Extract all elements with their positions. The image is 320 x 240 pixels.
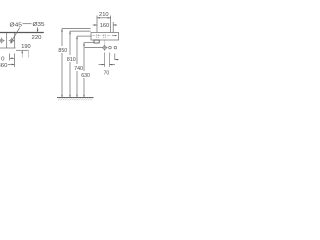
dimension 50 extension line <box>9 54 11 61</box>
svg-text:360: 360 <box>0 63 7 69</box>
elevation tap hole diamond <box>102 45 106 49</box>
height 630 extension line <box>84 42 94 44</box>
dimension 210 line <box>97 17 111 19</box>
dimension 50 arrowhead <box>10 58 13 60</box>
leader line to tap hole <box>10 28 19 44</box>
height 850 dim line lower <box>61 53 63 97</box>
svg-text:190: 190 <box>21 44 30 50</box>
dimension 360 extension line <box>14 54 16 68</box>
dimension 160 right arrow line <box>113 24 117 26</box>
height 810 floor arrowhead <box>69 95 70 98</box>
height 810 top arrowhead <box>69 31 71 34</box>
height 740 dim line upper <box>76 36 78 64</box>
height 850 dim line upper <box>61 29 63 46</box>
svg-text:810: 810 <box>67 57 76 63</box>
height 850 top arrowhead <box>61 29 63 32</box>
plan view: bowl back edge <box>0 47 16 49</box>
plan view: section line left <box>6 33 8 48</box>
height 740 extension line <box>77 35 92 37</box>
dimension 210 arrowhead right <box>108 17 111 19</box>
svg-text:Ø45: Ø45 <box>10 22 22 28</box>
dimension 70 arrowhead right <box>110 64 113 66</box>
height 630 top arrowhead <box>83 43 85 46</box>
elevation fixing hole left <box>109 46 112 49</box>
height 740 dim line lower <box>76 71 78 97</box>
plan view: section line right <box>14 33 16 48</box>
dimension 360 arrowhead <box>12 64 15 66</box>
plan tap hole symbol right <box>10 39 14 43</box>
elevation: hidden centre line <box>93 35 112 37</box>
tap hole leader line <box>85 47 102 49</box>
centre line arrowhead <box>115 35 117 36</box>
height 850 extension line <box>62 28 91 30</box>
svg-text:630: 630 <box>81 73 90 79</box>
dimension 210 extension left <box>96 16 98 33</box>
elevation: centre line arrow shaft <box>112 35 116 37</box>
svg-text:70: 70 <box>104 70 110 76</box>
dimension 70 left arrow line <box>99 64 105 66</box>
svg-text:850: 850 <box>58 48 67 54</box>
dimension 190 extension a <box>21 51 23 58</box>
small right dim arrow line <box>115 59 119 61</box>
plan tap hole symbol left <box>0 39 4 43</box>
dimension 160 arrowhead left <box>94 24 97 26</box>
floor line <box>57 97 94 99</box>
leader arrowhead <box>11 41 13 43</box>
dimension 70 extension left <box>104 53 106 68</box>
height 850 floor arrowhead <box>61 95 62 98</box>
small right dim arrowhead <box>115 59 118 61</box>
dimension 190 line <box>16 49 29 51</box>
svg-text:210: 210 <box>99 12 109 18</box>
dimension 220 stub <box>37 27 39 31</box>
dimension 190 arrowhead <box>21 50 23 53</box>
height 740 floor arrowhead <box>76 95 77 98</box>
dimension 190 extension b <box>27 51 29 58</box>
dimension 50 arrow line <box>10 57 15 59</box>
svg-text:740: 740 <box>74 66 83 72</box>
dimension 70 arrowhead left <box>102 64 105 66</box>
elevation: outlet box <box>94 40 99 43</box>
dimension 70 right arrow line <box>109 64 115 66</box>
height 810 dim line lower <box>69 62 71 97</box>
elevation: hidden vertical dash a <box>95 34 97 39</box>
height 630 dim line lower <box>83 78 85 97</box>
height 630 dim line upper <box>83 43 85 71</box>
dimension 160 arrowhead right <box>113 24 116 26</box>
height 810 dim line upper <box>69 31 71 55</box>
elevation: hidden vertical dash b <box>97 34 99 39</box>
svg-text:220: 220 <box>32 35 42 41</box>
svg-text:160: 160 <box>100 23 109 29</box>
elevation fixing hole right <box>114 46 117 49</box>
height 810 extension line <box>70 30 91 32</box>
dimension 210 arrowhead left <box>97 17 100 19</box>
elevation: basin body rectangle <box>91 33 119 40</box>
floor hatching <box>58 98 93 100</box>
plan view: wall / back edge line <box>0 32 44 34</box>
elevation: drain hidden line <box>104 40 106 45</box>
dimension 70 extension right <box>108 53 110 68</box>
dimension 220 arrowhead <box>37 29 39 32</box>
dimension 160 left arrow line <box>93 24 97 26</box>
dimension 210 extension right <box>110 16 112 33</box>
elevation: hidden vertical dash c <box>103 34 105 39</box>
label connector dash <box>23 23 32 25</box>
svg-text:Ø35: Ø35 <box>33 22 45 28</box>
dimension 360 arrow line <box>8 63 14 65</box>
dimension 160 extension right <box>112 22 114 32</box>
height 630 floor arrowhead <box>83 95 84 98</box>
svg-text:0: 0 <box>1 56 4 62</box>
height 740 top arrowhead <box>76 36 78 39</box>
elevation: hidden vertical dash d <box>105 34 107 39</box>
small right dim extension <box>114 54 116 61</box>
